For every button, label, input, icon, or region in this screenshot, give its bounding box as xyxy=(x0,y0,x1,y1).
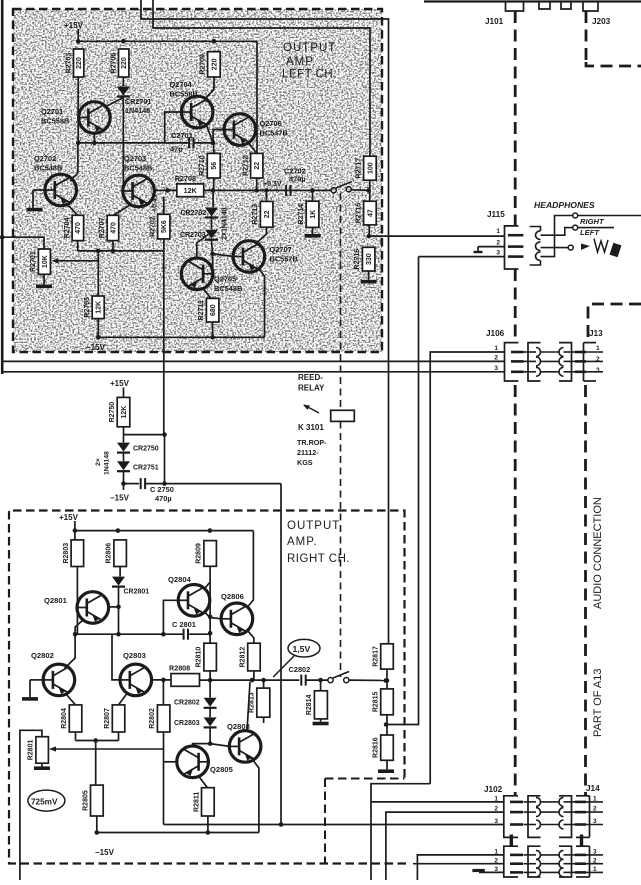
wire Q2804 emitter diagonal xyxy=(205,613,210,618)
svg-text:R2816: R2816 xyxy=(373,737,380,758)
resistor R2717 xyxy=(355,156,376,180)
transistor Q2707 xyxy=(233,241,298,273)
wire node to Q2705 base (right side) xyxy=(212,254,214,274)
svg-text:5K6: 5K6 xyxy=(161,220,168,233)
wire R2806 to CR2801 xyxy=(119,567,121,577)
resistor R2804 xyxy=(61,705,82,732)
svg-text:Q2801: Q2801 xyxy=(44,596,68,605)
wire R2713 top to bus xyxy=(266,190,268,201)
connector J13 xyxy=(584,329,604,381)
wire Q2702 collector up to node A xyxy=(77,143,79,173)
wire R2714 bottom to ground xyxy=(312,227,314,234)
svg-text:R2810: R2810 xyxy=(196,647,203,668)
wire R2802 bottom down xyxy=(163,732,165,825)
transistor Q2703 xyxy=(123,154,155,207)
ground below R2701 xyxy=(36,285,52,289)
svg-text:−15V: −15V xyxy=(86,343,106,352)
transistor Q2805 xyxy=(177,746,234,778)
top edge connector line xyxy=(424,0,641,2)
measurement callout 725mV xyxy=(28,790,65,811)
wire CR2703 down to Q2707 base node xyxy=(210,240,215,256)
svg-text:AMP.: AMP. xyxy=(287,536,318,548)
wire R2703 to Q2701 base and node A xyxy=(77,77,79,143)
svg-text:J106: J106 xyxy=(486,329,505,338)
capacitor C2750 xyxy=(141,478,145,489)
svg-text:+15V: +15V xyxy=(110,379,130,388)
svg-text:1: 1 xyxy=(494,345,498,352)
wire J102 pin1 xyxy=(371,801,504,803)
svg-text:R2750: R2750 xyxy=(109,402,116,423)
svg-text:47p: 47p xyxy=(170,145,183,154)
resistor R2708 xyxy=(175,174,204,197)
wire Q2701 emitter to CR2701 column xyxy=(105,98,123,108)
transistor Q2802 xyxy=(31,651,75,696)
J14 pin3 contact bar and stub xyxy=(575,823,603,826)
emitter resistor bus right channel xyxy=(76,705,119,785)
wire from top edge to R2717 column (inner) xyxy=(153,0,370,156)
+15V label mid section xyxy=(110,379,130,397)
svg-text:10K: 10K xyxy=(42,255,49,268)
wire J102 pin3 long line to mid section xyxy=(164,822,505,827)
wire node to J115 pin3 riser xyxy=(386,257,418,725)
svg-text:R2707: R2707 xyxy=(99,218,106,239)
cable wire 2 xyxy=(524,808,577,817)
ground below R2816 xyxy=(378,769,394,773)
svg-text:+0,3V: +0,3V xyxy=(263,181,282,188)
diode CR2750 xyxy=(117,443,159,453)
resistor R2803 xyxy=(63,540,84,567)
stipple texture background of left channel amplifier box xyxy=(13,9,382,352)
capacitor C2701 xyxy=(189,137,193,148)
svg-text:2×1N4148: 2×1N4148 xyxy=(222,207,229,240)
svg-text:J203: J203 xyxy=(592,17,611,26)
wire to J106 pin3 from left edge xyxy=(2,371,504,373)
cable wire 3 xyxy=(524,868,577,877)
svg-text:220: 220 xyxy=(121,57,128,69)
wire CR2802 to CR2803 xyxy=(209,708,211,717)
wire R2701 bottom to ground xyxy=(43,274,45,284)
transistor Q2803 xyxy=(120,651,152,696)
svg-text:100: 100 xyxy=(367,162,374,174)
wire R2750 bottom to diode node xyxy=(124,427,167,443)
svg-text:725mV: 725mV xyxy=(31,797,58,806)
svg-text:Q2804: Q2804 xyxy=(168,575,192,584)
input wire from left edge to R2701 xyxy=(0,235,44,249)
wire from top edge to R2717 net (outer) xyxy=(141,0,389,644)
J14 pin2 contact bar and stub xyxy=(575,811,603,814)
headphone jack socket contacts xyxy=(530,227,541,266)
wire Q2804 base left down to bus xyxy=(163,600,178,634)
connector J115 xyxy=(487,210,518,269)
cable bar between connector groups right xyxy=(580,835,583,847)
svg-text:1K: 1K xyxy=(310,210,317,219)
svg-text:470µ: 470µ xyxy=(289,175,306,184)
svg-text:220: 220 xyxy=(76,57,83,69)
svg-text:2: 2 xyxy=(494,355,498,362)
ground at Q2702 base xyxy=(27,208,43,212)
svg-text:12K: 12K xyxy=(96,301,103,314)
cable dashed line below J106 to J102 xyxy=(514,385,517,795)
wire second group pin2 xyxy=(413,863,504,865)
wire R2712 bottom to bus xyxy=(256,178,258,190)
dashed partition inside right box xyxy=(325,779,405,864)
transistor Q2702 xyxy=(34,154,77,206)
svg-text:R2804: R2804 xyxy=(61,708,68,729)
wire C2801 right plate to R2810 column xyxy=(188,631,212,636)
cable coupling left bracket xyxy=(528,846,541,877)
svg-text:3: 3 xyxy=(494,365,498,372)
output bus right channel y680 xyxy=(200,678,300,683)
svg-text:−15V: −15V xyxy=(95,848,115,857)
svg-text:Q2806: Q2806 xyxy=(221,592,244,601)
cable coupling left bracket xyxy=(528,796,541,838)
svg-text:CR2751: CR2751 xyxy=(133,465,159,472)
svg-text:470: 470 xyxy=(110,222,117,234)
wire right side jog down xyxy=(371,784,430,880)
svg-text:47: 47 xyxy=(367,209,374,217)
svg-text:470µ: 470µ xyxy=(155,494,172,503)
wire to J106 pin2 from left edge xyxy=(2,360,504,362)
cable coupling left bracket xyxy=(528,343,541,381)
+15V rail right channel xyxy=(59,513,253,540)
wire C2802 to switch xyxy=(306,678,328,683)
svg-text:R2807: R2807 xyxy=(104,708,111,729)
reed relay K3101 xyxy=(297,373,354,467)
wire J102 pin2 down left xyxy=(386,812,504,880)
resistor R2704 xyxy=(64,215,84,240)
svg-text:R2806: R2806 xyxy=(106,543,113,564)
cable wire 2 xyxy=(524,859,577,868)
connector shell small middle 2 xyxy=(561,3,571,10)
svg-text:CR2803: CR2803 xyxy=(174,720,200,727)
title OUTPUT AMP. LEFT CH. xyxy=(282,42,337,81)
label C2702 470u and +0,3V xyxy=(263,167,306,189)
cable coupling right bracket xyxy=(559,846,572,877)
wire node through R2715 xyxy=(367,190,372,238)
ground stub at J115 pin2 xyxy=(474,247,505,252)
svg-text:56: 56 xyxy=(211,162,218,170)
wire R2710 top xyxy=(213,143,215,154)
svg-text:R2715: R2715 xyxy=(355,203,362,224)
resistor R2801 xyxy=(28,737,49,764)
svg-text:J115: J115 xyxy=(487,210,505,219)
svg-text:Q2703: Q2703 xyxy=(124,154,146,163)
resistor R2715 xyxy=(355,201,376,225)
resistor R2710 xyxy=(199,153,220,178)
transistor Q2701 xyxy=(41,102,110,134)
capacitor C2801 xyxy=(184,629,188,640)
dashed border OUTPUT AMP RIGHT CH box xyxy=(9,511,406,864)
resistor R2706 xyxy=(110,49,129,77)
diode CR2703 xyxy=(180,230,218,240)
second group pin1 bar xyxy=(510,854,523,857)
svg-text:CR2750: CR2750 xyxy=(133,446,159,453)
-15V rail right channel xyxy=(95,830,259,857)
wire R2810 bottom to bus xyxy=(209,671,211,680)
wire Q2801 collector right xyxy=(109,606,119,608)
svg-text:PART OF A13: PART OF A13 xyxy=(592,669,604,737)
wire node to Q2808 base xyxy=(210,744,229,747)
transistor Q2705 xyxy=(181,258,242,293)
resistor R2713 xyxy=(252,201,273,227)
second connector group lower shell left xyxy=(494,846,518,877)
wire R2812 bottom to bus xyxy=(253,671,255,680)
svg-text:CR2801: CR2801 xyxy=(124,589,150,596)
resistor R2714 xyxy=(298,201,319,227)
feedback wire with arrow into R2701 xyxy=(52,258,99,263)
svg-text:−15V: −15V xyxy=(110,494,130,503)
wire Q2805 collector up to node xyxy=(193,744,211,746)
ground below R2801 xyxy=(34,766,50,770)
svg-text:LEFT: LEFT xyxy=(580,228,600,237)
cable dashed line J203 exits right xyxy=(586,11,641,66)
resistor R2701 xyxy=(30,249,50,274)
wire CR2750 to CR2751 xyxy=(123,453,125,461)
J14 second group pin bars xyxy=(575,855,603,873)
svg-text:12K: 12K xyxy=(121,406,128,419)
diode CR2701 xyxy=(117,87,130,97)
diode CR2702 xyxy=(181,208,219,218)
svg-text:R2716: R2716 xyxy=(354,249,361,270)
connector J101 shell xyxy=(485,3,524,27)
svg-text:R2717: R2717 xyxy=(355,158,362,179)
resistor R2805 xyxy=(82,785,103,816)
svg-text:Q2705: Q2705 xyxy=(214,275,236,284)
resistor R2750 xyxy=(109,397,130,426)
svg-text:Q2704: Q2704 xyxy=(170,80,193,89)
svg-text:R2814: R2814 xyxy=(306,694,313,715)
svg-text:R2808: R2808 xyxy=(169,664,190,673)
wire switch to R2817 node xyxy=(349,678,388,683)
cable wire 1 xyxy=(524,797,577,806)
wire switch to node xyxy=(351,188,371,193)
resistor R2816 xyxy=(373,735,394,760)
wire R2704 R2707 R2702 bottoms to bias node xyxy=(78,239,164,253)
wire Q2803 base up to bus xyxy=(112,634,120,680)
svg-text:AUDIO CONNECTION: AUDIO CONNECTION xyxy=(592,497,604,609)
svg-text:3: 3 xyxy=(496,250,500,257)
title OUTPUT AMP. RIGHT CH. xyxy=(287,520,350,565)
resistor R2702 xyxy=(149,214,170,239)
wire rail down to Q2806 collector xyxy=(248,531,254,607)
connector shell small middle 1 xyxy=(539,3,550,10)
wire R2706 to CR2701 xyxy=(122,77,124,86)
svg-text:BC548B: BC548B xyxy=(124,164,152,173)
svg-text:R2801: R2801 xyxy=(28,740,35,761)
wire Q2703 emitter to R2707 xyxy=(113,205,130,215)
resistor R2811 xyxy=(193,788,214,816)
svg-text:R2705: R2705 xyxy=(84,297,91,318)
J102 pin1 contact bar xyxy=(510,801,523,804)
wire R2811 bottom to -15V rail xyxy=(207,816,209,833)
svg-text:J14: J14 xyxy=(586,784,600,793)
svg-text:CR2802: CR2802 xyxy=(174,700,200,707)
wire node A horizontal to C2701 xyxy=(76,141,189,146)
wire R2801 top to callout leader xyxy=(20,730,42,880)
svg-text:+15V: +15V xyxy=(59,513,79,522)
wire Q2702 base to ground xyxy=(33,190,45,208)
svg-text:BC547B: BC547B xyxy=(260,129,288,138)
resistor R2806 xyxy=(106,540,127,567)
resistor R2703 xyxy=(65,49,84,77)
svg-text:R2809: R2809 xyxy=(196,543,203,564)
wire node to Q2707 base xyxy=(213,254,234,257)
svg-text:R2706: R2706 xyxy=(110,53,117,74)
svg-text:220: 220 xyxy=(211,58,218,70)
diode CR2803 xyxy=(174,717,217,727)
dashed border OUTPUT AMP LEFT CH box xyxy=(13,9,382,352)
second group pin3 bar xyxy=(510,871,523,874)
cable wire 1 xyxy=(524,348,577,357)
svg-text:RIGHT CH.: RIGHT CH. xyxy=(287,553,350,565)
svg-text:REED-: REED- xyxy=(298,373,323,382)
svg-text:CR2702: CR2702 xyxy=(181,210,207,217)
connector J14 xyxy=(576,784,600,837)
wire R2814 top to bus xyxy=(320,680,322,691)
wire Q2805 base from column xyxy=(164,761,177,763)
svg-text:BC558B: BC558B xyxy=(41,117,69,126)
wire CR2702 to CR2703 xyxy=(211,218,213,230)
wire R2813 bottom stub xyxy=(263,717,265,723)
svg-text:680: 680 xyxy=(210,304,217,316)
wire Q2808 collector to bus node xyxy=(247,682,250,731)
wire Q2802 base to ground xyxy=(30,680,43,697)
svg-text:2: 2 xyxy=(496,240,500,247)
resistor R2810 xyxy=(196,643,217,671)
wire R2815 bottom node xyxy=(384,715,389,735)
wire Q2706 base xyxy=(213,130,224,143)
svg-text:Q2701: Q2701 xyxy=(41,107,63,116)
connector J106 xyxy=(486,329,518,381)
svg-text:22: 22 xyxy=(254,162,261,170)
J106 pin2 contact bar xyxy=(511,360,524,363)
svg-text:470: 470 xyxy=(75,222,82,234)
wire R2716 to ground xyxy=(368,271,370,280)
wire R2816 to ground xyxy=(386,760,388,769)
J115 pin1 contact bar xyxy=(508,234,524,237)
wire R2813 top to bus xyxy=(263,680,265,688)
svg-text:RELAY: RELAY xyxy=(298,384,325,393)
svg-text:12K: 12K xyxy=(184,186,198,195)
wire Q2704 emitter to R2710 node xyxy=(206,124,213,143)
svg-text:R2710: R2710 xyxy=(199,155,206,176)
diode CR2751 xyxy=(117,461,159,471)
wire CR2801 to Q2801 collector and bus xyxy=(116,587,121,637)
measurement callout 1,5V xyxy=(273,639,320,677)
svg-text:1N4148: 1N4148 xyxy=(104,451,111,475)
cable coupling right bracket xyxy=(559,343,572,381)
wire R2713 bottom to Q2707 collector xyxy=(256,227,267,243)
svg-text:LEFT CH.: LEFT CH. xyxy=(282,69,337,81)
svg-text:C 2750: C 2750 xyxy=(150,485,174,494)
wire R2801 bottom to ground xyxy=(41,763,43,766)
cable wire 3 xyxy=(524,820,577,829)
svg-text:Q2803: Q2803 xyxy=(123,651,146,660)
headphone plug symbol xyxy=(594,239,621,258)
J14 pin1 contact bar and stub xyxy=(575,801,603,804)
-15V rail left channel box xyxy=(86,319,265,352)
transistor Q2801 xyxy=(44,592,109,624)
label C2750 470u xyxy=(150,485,174,503)
wire J106 pin1 down right side xyxy=(430,352,504,784)
svg-text:Q2702: Q2702 xyxy=(34,154,56,163)
wire Q2804 collector diagonal xyxy=(205,582,210,588)
svg-text:R2714: R2714 xyxy=(298,204,305,225)
wire R2702 top to bus xyxy=(163,197,165,215)
ground below R2714 xyxy=(305,234,321,238)
wire Q2801 emitter to bus xyxy=(75,620,83,634)
label 2x 1N4148 mid xyxy=(95,451,111,475)
capacitor C2702 xyxy=(286,185,290,196)
transistor Q2704 xyxy=(170,80,214,128)
wire headphone left signal to J115 pin1 xyxy=(369,235,504,237)
resistor R2716 xyxy=(354,247,375,271)
svg-text:C 2801: C 2801 xyxy=(172,620,196,629)
wire headphone right signal to J115 pin3 xyxy=(419,256,505,258)
svg-text:J102: J102 xyxy=(484,785,503,794)
svg-text:R2709: R2709 xyxy=(199,54,206,75)
svg-text:OUTPUT: OUTPUT xyxy=(287,520,340,532)
wire Q2808 emitter down to -15V rail xyxy=(251,758,259,833)
vertical wire from left channel down through mid node xyxy=(164,435,166,484)
svg-text:3: 3 xyxy=(596,367,600,374)
svg-text:BC557B: BC557B xyxy=(270,255,298,264)
wire Q2702 emitter to R2704 xyxy=(67,204,78,215)
transistor Q2706 xyxy=(224,114,288,146)
J106 pin1 contact bar xyxy=(511,351,524,354)
J13 pin2 contact bar and stub xyxy=(575,360,603,363)
feedback wire with arrow into R2801 right channel xyxy=(49,746,164,751)
wire C2701 to R2710 top node xyxy=(194,141,216,146)
resistor R2813 xyxy=(249,688,270,717)
svg-text:R2703: R2703 xyxy=(65,53,72,74)
diode CR2802 xyxy=(174,698,217,708)
wire Q2705 collector up to diode node xyxy=(197,235,208,258)
wire Q2704 base left and down to C2701 xyxy=(165,112,182,143)
svg-text:Q2707: Q2707 xyxy=(270,245,292,254)
svg-text:RIGHT: RIGHT xyxy=(580,217,605,226)
wire jack to LEFT terminal xyxy=(541,225,615,237)
connector J102 xyxy=(484,785,518,837)
svg-text:OUTPUT: OUTPUT xyxy=(283,42,336,54)
bus wire right channel base line y634 xyxy=(73,632,183,637)
svg-text:R2704: R2704 xyxy=(64,218,71,239)
wire CR2701 to Q2703 base xyxy=(122,97,124,191)
cable wire 1 xyxy=(524,850,577,859)
wire Q2802 emitter to R2804 xyxy=(66,694,76,705)
wire R2803 to Q2801 base xyxy=(76,567,78,635)
wire Q2707 emitter down to -15V rail xyxy=(258,268,265,337)
svg-text:1: 1 xyxy=(596,345,600,352)
capacitor C2802 xyxy=(301,675,305,686)
svg-text:21112-: 21112- xyxy=(297,448,319,457)
J115 pin2 contact bar xyxy=(508,245,524,248)
wire Q2705 emitter to R2711 xyxy=(203,288,212,300)
wire R2802 top to Q2803 collector node xyxy=(162,680,164,705)
transistor Q2808 xyxy=(227,722,261,762)
svg-text:R2802: R2802 xyxy=(149,708,156,729)
ground at Q2802 base xyxy=(22,697,38,701)
svg-text:+0,4V: +0,4V xyxy=(152,193,159,212)
second connector group lower shell right xyxy=(576,846,597,877)
resistor R2817 xyxy=(373,644,394,669)
J102 pin2 contact bar xyxy=(510,811,523,814)
second group pin2 bar xyxy=(510,862,523,865)
svg-text:1,5V: 1,5V xyxy=(293,644,311,654)
+15V supply label and rail (left channel) xyxy=(64,21,257,44)
wire +15V rail down to Q2706 collector and R2712 xyxy=(256,41,258,153)
resistor R2705 xyxy=(84,296,104,319)
